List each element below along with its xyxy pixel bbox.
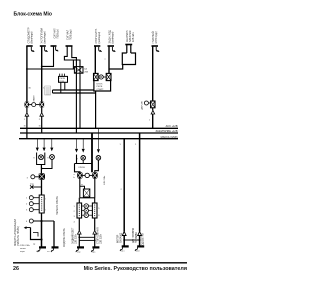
connector P2 [39,246,46,248]
circle C1L [31,175,35,179]
circle R3 [29,208,33,212]
branch left with arrow [31,228,42,240]
circle R2 [29,202,33,206]
bottom right wires [122,133,141,246]
feed L1b [43,139,45,148]
feed L3 [82,139,84,149]
connector P6 [137,245,144,247]
bottom wires from switch block [78,218,97,247]
feed L2 [51,139,53,148]
wire J5 pin to module [94,46,96,74]
svg-text:Mio Series. Руководство пользо: Mio Series. Руководство пользователя [84,266,187,272]
svg-text:ПОВ.: ПОВ. [59,81,65,83]
wire J3b pin 1 [64,46,80,128]
connector P4 [92,246,99,248]
connector hooks bottom [37,247,137,252]
bus1 [20,127,178,129]
wire F1 down [26,107,28,112]
bus2 [20,132,178,134]
relay box R [39,195,44,213]
link a [79,236,94,238]
connector J1 [26,45,32,47]
connector J6 [108,45,115,47]
svg-text:МОТОР: МОТОР [117,234,119,243]
lamp d1 [84,204,89,209]
wire J2 to fuse F2 [41,46,43,102]
svg-text:(бел/черн): (бел/черн) [31,31,34,43]
fuse squares row mid-left [25,95,45,108]
svg-text:черн: черн [20,251,26,253]
junction dot f [40,220,42,222]
battery pocket [109,45,136,69]
svg-text:МОДУЛЬ СВЕТА: МОДУЛЬ СВЕТА [63,228,66,247]
micro labels under bottom connectors [77,251,140,254]
svg-text:25В: 25В [84,72,88,74]
hook pin J6 [112,47,115,52]
svg-text:ACC +12В: ACC +12В [166,125,178,128]
hook pin J5 [99,47,102,52]
wire to lamp module connector [53,221,55,247]
connector J3b [66,45,73,47]
lamp d3 [84,213,89,218]
junction dot g [40,238,42,240]
svg-text:(зел/черн): (зел/черн) [98,32,101,44]
svg-text:12В 21Вт: 12В 21Вт [104,176,106,185]
hook pin J1 [31,47,34,52]
bottom left micro labels [20,244,50,254]
svg-text:РЕЛЕ: РЕЛЕ [97,86,103,88]
contact box C2 [92,203,97,218]
connector J3a [51,45,57,47]
misc micro labels bottom right [104,144,137,191]
wire C1 down [78,218,80,231]
hook stub pins of single connectors [31,47,159,52]
connector J2 [40,45,46,47]
wire J3b pin 2 [72,46,77,133]
tap module to bus1 [95,91,97,128]
switch block row C [74,203,101,224]
sensor circle and fuse F3 [140,100,155,128]
top connector labels (rotated) [28,27,158,43]
svg-text:ЛАМП: ЛАМП [33,95,36,102]
feed L1a [36,139,38,148]
plug T4 [122,232,126,236]
svg-text:12В 21Вт: 12В 21Вт [76,233,78,244]
bus3 [19,138,178,140]
junction dot i [139,239,141,241]
plug T2 [40,113,44,117]
svg-text:ЗАДНИЙ СВЕТ: ЗАДНИЙ СВЕТ [72,227,75,244]
trunk drop [41,180,43,221]
svg-text:ОХЛАЖД.: ОХЛАЖД. [119,232,122,243]
svg-text:КЛЮЧ (кр): КЛЮЧ (кр) [155,31,158,43]
svg-text:БЛОК: БЛОК [97,84,104,86]
svg-text:ДАТЧИК: ДАТЧИК [140,100,143,109]
wire J6 pin to module [108,46,110,74]
plug T3 [151,110,155,114]
svg-text:(ПАНЕЛЬ ПРИБ.): (ПАНЕЛЬ ПРИБ.) [17,226,20,246]
wire F2 down [41,107,43,112]
wires below fuses with plug triangles [25,107,43,138]
junction dot c [78,236,80,238]
svg-text:зелен: зелен [20,248,27,250]
svg-text:СТОП-СИГНАЛ: СТОП-СИГНАЛ [97,227,100,244]
svg-text:26: 26 [13,266,19,272]
lamp L4 [92,156,101,161]
fuse A2 [92,172,97,178]
wire J1 to fuse F1 [26,46,28,102]
circle R1 [29,196,33,200]
wire J8 to fuse F3 [152,46,154,102]
feed L4 [97,128,99,149]
fuse F2 [40,102,45,108]
svg-text:син: син [121,251,124,253]
wire branch to F1 chain [27,60,74,69]
hook pin J2 [45,47,48,52]
lamp feeds with arrows [36,128,99,152]
junction dot b [26,68,28,70]
bottom left wiring [24,221,42,247]
junction dot a [41,66,43,68]
svg-text:12В 0.5Вт: 12В 0.5Вт [20,245,30,247]
main drop wires from connectors [27,46,153,102]
svg-text:(син/черн): (син/черн) [111,31,114,43]
connector J7 [125,44,132,46]
svg-text:(жел/черн): (жел/черн) [44,31,47,43]
pin micro labels [24,88,47,128]
module lamp [99,75,103,79]
connector block B1 [39,173,45,179]
info box relay [59,74,68,93]
wire D1 [123,139,125,232]
svg-text:ПОДСВЕТКА: ПОДСВЕТКА [142,233,145,247]
svg-text:ст: ст [81,184,83,186]
link c [124,239,139,241]
svg-text:к: к [105,59,106,61]
plug T7 [93,231,97,235]
wire C2 down [94,218,96,231]
bus0 pair [53,89,94,91]
svg-text:ПОВ.(пр): ПОВ.(пр) [69,29,72,40]
link b [79,239,94,241]
fuse F1 [25,102,30,108]
svg-text:ТОПЛИВА: ТОПЛИВА [135,232,138,243]
module fuse b [106,73,111,80]
junction dot d [94,240,96,242]
lamp L0 [32,103,36,107]
hook pin J3a [56,47,59,51]
module frame U1 [94,73,111,91]
small text block [45,86,51,95]
wire D2 [139,133,141,232]
contact box C1 [77,203,82,218]
bottom connectors [39,246,144,247]
switch housing top [75,155,99,173]
feed house left [76,139,78,149]
fuse A1 [77,172,82,178]
top connector bars [26,45,158,47]
row B small box [79,179,95,204]
svg-text:КЛЮЧ: КЛЮЧ [79,167,86,169]
junction dot e [41,168,43,170]
connector P3 [77,246,84,248]
junction dot h [123,239,125,241]
svg-text:ДАТ. УРОВНЯ: ДАТ. УРОВНЯ [132,228,135,243]
svg-text:ПЕРЕКЛ. СВЕТА: ПЕРЕКЛ. СВЕТА [56,196,59,215]
lamp L1 assembly [33,153,45,174]
lamp d2 [84,208,89,213]
plug T1 [25,113,29,117]
left column: buzzer etc [26,175,54,223]
wire J3a pin [42,46,54,66]
plug T6 [78,231,82,235]
trio row A [74,172,98,179]
lamp L3 [77,156,86,164]
connector box FB1 over drops [74,67,88,74]
plug T5 [138,232,142,236]
x-mark stub [32,186,42,188]
module fuse a [94,73,99,80]
connector J5 [94,45,100,47]
footer rule [13,262,187,264]
svg-text:12В 4Ач: 12В 4Ач [132,32,135,42]
routing knot J3a/J3b [27,46,80,133]
lamp A [85,173,89,177]
svg-text:Блок-схема Mio: Блок-схема Mio [14,12,52,18]
connector P5 [122,245,129,247]
circle C5 [29,219,33,223]
trunk down [41,221,43,247]
connector P1 [52,246,59,248]
svg-text:12В 21Вт: 12В 21Вт [101,233,103,244]
connector J8 [152,45,159,47]
lamp L2 [42,155,55,169]
svg-text:ПОВ.(л): ПОВ.(л) [56,29,59,38]
fuse F3 [151,101,155,108]
links [82,205,84,207]
hook pin J8 [156,47,159,52]
trunk wire from bus2 [91,133,93,172]
svg-text:СТАРТ.: СТАРТ. [97,88,105,91]
bus labels right [155,125,177,139]
bottom rotated labels [72,227,145,247]
